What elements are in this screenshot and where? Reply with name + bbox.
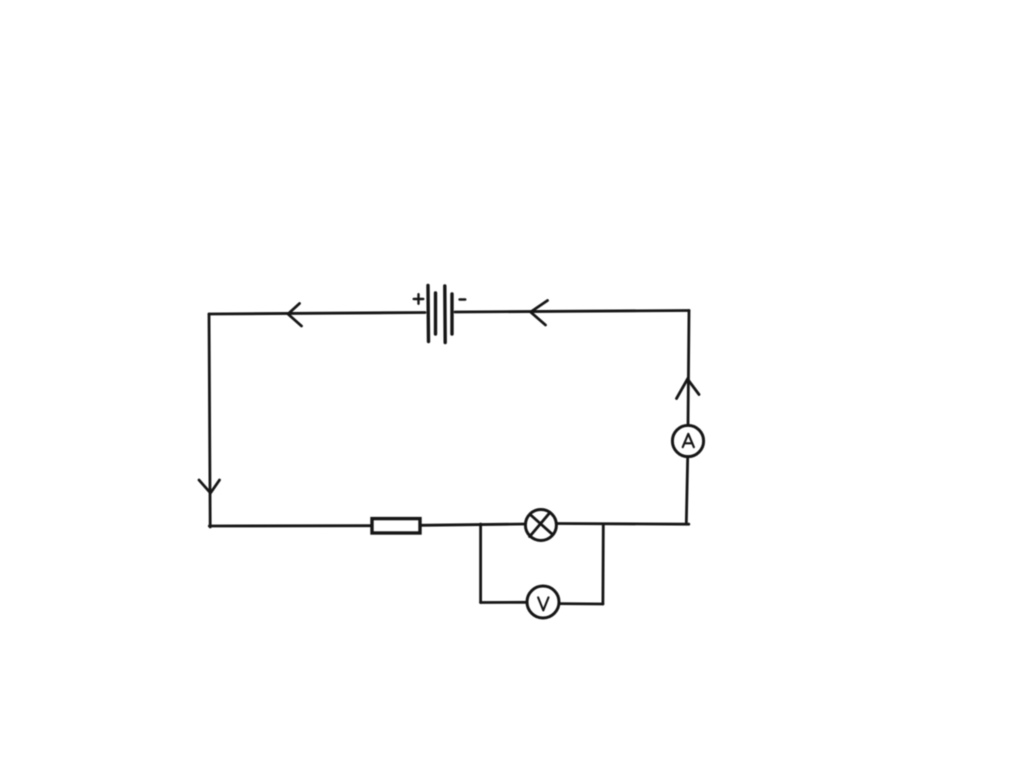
battery B1 plate 4 (short, -) xyxy=(450,294,453,334)
battery B1 plate 1 (long, +) xyxy=(426,286,430,342)
current arrow (down) on left wire xyxy=(199,480,220,493)
resistor R1 xyxy=(372,519,420,533)
voltmeter branch right vertical wire xyxy=(602,525,605,605)
wire bottom-right segment xyxy=(556,522,689,526)
current arrow (up) on right wire xyxy=(677,379,700,399)
voltmeter V1 xyxy=(527,586,559,618)
battery B1 plate 3 (long) xyxy=(443,286,447,343)
wire right vertical (lower) xyxy=(686,457,687,524)
wire resistor to bottom-left corner xyxy=(209,524,372,527)
wire top-left segment xyxy=(209,313,425,315)
battery + polarity label xyxy=(414,294,424,304)
ammeter A1 xyxy=(672,425,703,456)
wire right vertical (upper) xyxy=(688,311,689,426)
lamp L1 xyxy=(525,510,556,541)
current arrow (right, pointing left) on top wire xyxy=(531,301,548,326)
wire top-right segment xyxy=(455,311,689,313)
battery - polarity label xyxy=(460,298,466,300)
current arrow (left, pointing left) on top wire xyxy=(288,304,302,327)
battery B1 plate 2 (short) xyxy=(434,293,437,334)
voltmeter branch bottom-right wire xyxy=(559,602,603,605)
voltmeter branch left vertical wire xyxy=(479,524,482,603)
wire lamp to resistor xyxy=(420,524,525,525)
wire left vertical xyxy=(209,314,210,527)
voltmeter branch bottom-left wire xyxy=(481,601,527,604)
